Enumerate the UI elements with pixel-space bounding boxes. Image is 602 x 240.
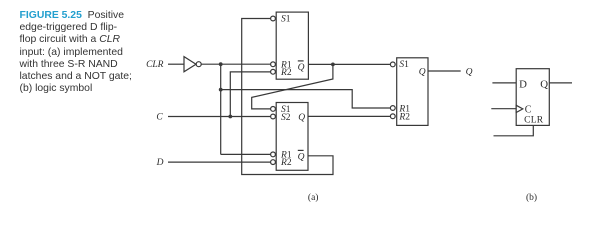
wire CLR input of symbol — [494, 125, 534, 135]
pin bubble S1 of U2 — [271, 107, 276, 112]
svg-text:S1: S1 — [281, 15, 291, 25]
pin bubble R1 of U2 — [271, 152, 276, 157]
wire Q output of U3 — [428, 70, 461, 72]
svg-text:Q: Q — [540, 79, 548, 91]
D flip-flop logic symbol (b) — [516, 69, 549, 126]
wire Qbar U1 to S1 of bottom latch (diagonal) — [252, 64, 333, 109]
svg-text:Q: Q — [419, 67, 426, 77]
junction dot Qbar U1 branch — [331, 63, 335, 67]
svg-text:D: D — [156, 158, 164, 168]
wire Q output of symbol — [549, 82, 572, 84]
pin bubble R2 of U3 — [390, 114, 395, 119]
inverter output bubble — [196, 62, 201, 67]
svg-text:CLR: CLR — [146, 60, 164, 70]
pin bubble R1 of U3 — [390, 106, 395, 111]
pin bubble S1 of U1 — [271, 16, 276, 21]
svg-text:Q: Q — [298, 152, 305, 162]
svg-text:R2: R2 — [398, 113, 410, 123]
junction dot CLR branch 2 — [219, 88, 223, 92]
svg-text:R2: R2 — [280, 68, 292, 78]
svg-text:D: D — [519, 79, 527, 91]
wire C clock input of symbol — [491, 108, 516, 110]
svg-text:CLR: CLR — [524, 115, 544, 126]
svg-text:Q: Q — [298, 113, 305, 123]
latch U2 (bottom S-R latch) — [276, 103, 308, 171]
wire Qbar of U1 to S1 of output latch — [308, 63, 390, 65]
wire inverter output to R1 of top latch — [201, 63, 270, 65]
wire CLR to R1 of output latch — [221, 90, 391, 108]
NOT gate (inverter) — [184, 57, 196, 72]
svg-text:(b): (b) — [526, 192, 537, 203]
pin bubble R2 of U2 — [271, 160, 276, 165]
wire C to R2 of top latch — [230, 72, 270, 117]
junction dot CLR branch 1 — [219, 62, 223, 66]
wire D input of symbol — [492, 82, 516, 84]
wire D input to R2 of bottom latch — [168, 161, 271, 163]
svg-text:R2: R2 — [280, 158, 292, 168]
wire CLR input to inverter — [168, 63, 184, 65]
svg-text:Q: Q — [466, 67, 473, 77]
wire Q of U2 to R2 of output latch — [308, 115, 390, 117]
svg-text:C: C — [156, 112, 163, 122]
pin bubble R1 of U1 — [271, 62, 276, 67]
svg-text:(a): (a) — [308, 192, 319, 203]
wire Qbar of U2 feedback to S1 of top latch — [242, 19, 333, 175]
svg-text:Q: Q — [298, 63, 305, 73]
svg-text:S2: S2 — [281, 113, 291, 123]
latch U3 (output S-R latch) — [397, 58, 428, 126]
wire C input to S2 of bottom latch — [168, 116, 271, 118]
svg-text:S1: S1 — [399, 60, 409, 70]
pin bubble R2 of U1 — [271, 69, 276, 74]
latch U1 (top S-R latch) — [276, 12, 308, 79]
clock edge triangle of symbol — [516, 105, 523, 112]
pin bubble S1 of U3 — [390, 62, 395, 67]
junction dot C branch — [228, 115, 232, 119]
pin bubble S2 of U2 — [271, 114, 276, 119]
wire CLR vertical run — [220, 64, 222, 154]
wire CLR to R1 of bottom latch — [221, 153, 271, 155]
